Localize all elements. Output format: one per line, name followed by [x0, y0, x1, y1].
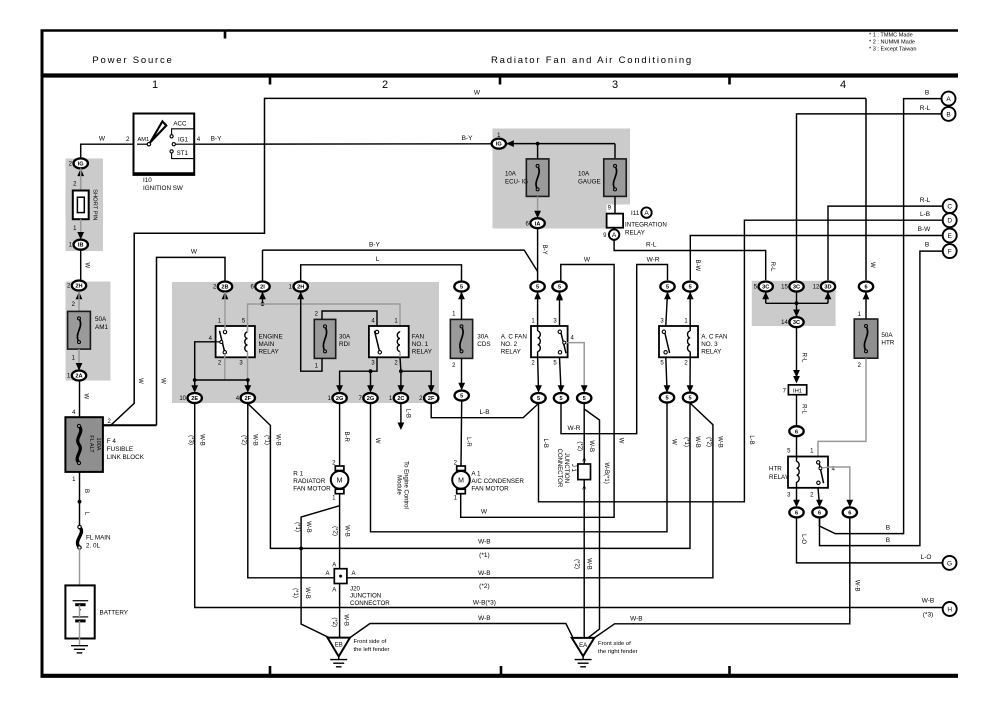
svg-text:L-B: L-B: [479, 409, 489, 416]
svg-text:5: 5: [536, 285, 539, 291]
svg-text:14: 14: [781, 320, 788, 326]
svg-text:3: 3: [612, 79, 618, 91]
battery: [65, 585, 94, 638]
wire B-Y ignition to IG fuse oval: [194, 143, 491, 145]
svg-text:W-B: W-B: [304, 587, 310, 599]
svg-text:* 2 : NUMMI Made: * 2 : NUMMI Made: [869, 40, 915, 46]
fan no1 relay switch: [375, 331, 380, 352]
wire W-B 5 oval to EA via J1: [583, 403, 585, 638]
svg-text:3C: 3C: [793, 285, 800, 291]
svg-text:L-B: L-B: [542, 439, 548, 448]
svg-text:10: 10: [179, 396, 186, 402]
fuse 30A RDI: [314, 319, 335, 358]
wire W-R net: [561, 265, 668, 434]
svg-text:* 1 : TMMC Made: * 1 : TMMC Made: [869, 33, 913, 39]
svg-text:B: B: [925, 90, 929, 97]
gray zone 3C/3D connector: [752, 281, 836, 326]
junction IH1: [788, 385, 806, 395]
wire radiator motor pin1 down: [339, 494, 341, 569]
svg-text:5: 5: [665, 396, 668, 402]
ground below battery: [71, 645, 88, 647]
svg-text:W-R: W-R: [568, 425, 581, 432]
svg-text:2G: 2G: [336, 396, 343, 402]
connector 2I: [255, 282, 269, 292]
svg-text:RELAY: RELAY: [501, 348, 522, 355]
svg-text:ST1: ST1: [177, 150, 189, 157]
wire 2I to bus to engine relay pin5 and fan relay pin1: [262, 292, 264, 304]
connector 6 L-O: [789, 507, 803, 517]
svg-text:L-B: L-B: [920, 211, 930, 218]
bottom border ticks: [269, 666, 272, 674]
svg-text:A: A: [352, 571, 356, 577]
wire W net fan2: [559, 280, 561, 282]
svg-text:ECU- IG: ECU- IG: [505, 179, 528, 186]
svg-text:6: 6: [848, 511, 851, 517]
wire AM1 fuse to 2A: [78, 349, 80, 369]
wire RDI pin1 to 2H: [301, 292, 322, 371]
connector 2F right: [424, 393, 438, 403]
connector 2G no7: [363, 393, 377, 403]
svg-text:4: 4: [840, 79, 846, 91]
wire B-Y IA to relays: [537, 228, 539, 281]
svg-text:W-B: W-B: [630, 615, 643, 622]
svg-text:BATTERY: BATTERY: [100, 610, 129, 617]
svg-text:FL MAIN: FL MAIN: [86, 535, 111, 542]
svg-text:W-B: W-B: [478, 615, 491, 622]
wire GAUGE fuse to integration relay: [614, 196, 616, 213]
svg-text:(*1): (*1): [479, 552, 489, 559]
radiator fan motor R1: [335, 466, 344, 471]
svg-text:W-B: W-B: [478, 539, 491, 546]
wire 2B to engine relay pin1: [224, 292, 226, 331]
HTR relay switch: [819, 461, 824, 483]
header column ticks: [269, 77, 272, 85]
svg-text:B: B: [925, 242, 929, 249]
svg-text:Front side of: Front side of: [598, 641, 631, 647]
svg-text:5: 5: [559, 396, 562, 402]
wire L-B circle D net: [539, 220, 943, 502]
gray zone ECU-IG/GAUGE fuses: [493, 129, 631, 229]
svg-text:2H: 2H: [297, 285, 304, 291]
svg-text:HTR: HTR: [881, 340, 894, 347]
svg-text:F: F: [948, 249, 952, 256]
connector IA: [530, 218, 544, 228]
svg-text:W-R: W-R: [647, 257, 660, 264]
svg-text:NO. 2: NO. 2: [501, 341, 518, 348]
svg-text:W: W: [670, 439, 676, 445]
ground EA front side of the right fender: [572, 638, 595, 656]
wire fan relay pin3 to 2G connectors: [340, 357, 377, 390]
svg-text:2: 2: [126, 136, 130, 143]
wire W-B1 5 oval diagonal to EA: [584, 409, 599, 638]
svg-text:W-B: W-B: [478, 570, 491, 577]
svg-text:L-B: L-B: [404, 409, 410, 418]
wire R-L integration relay to 3C: [614, 240, 766, 280]
connector 6 HTR fuse: [859, 282, 873, 292]
svg-text:RDI: RDI: [339, 341, 350, 348]
circle H: [943, 602, 957, 616]
svg-text:SHORT PIN: SHORT PIN: [92, 189, 98, 220]
connector 5 wr top: [660, 282, 674, 292]
svg-text:W-B(*1): W-B(*1): [603, 462, 609, 483]
wire W main distribution: [103, 424, 111, 426]
wire W bus fan3: [371, 403, 668, 532]
fuse FL MAIN 2.0L: [77, 527, 81, 548]
wire ac fan no2 pin2 pin5 to bottom ovals: [537, 357, 540, 390]
svg-text:15: 15: [781, 285, 788, 291]
svg-text:B-Y: B-Y: [211, 136, 223, 143]
svg-text:W-B: W-B: [343, 614, 349, 626]
svg-text:(*1): (*1): [292, 588, 298, 598]
svg-text:30A: 30A: [477, 334, 489, 341]
svg-text:W: W: [584, 257, 591, 264]
svg-text:6: 6: [818, 511, 821, 517]
ac fan no3 relay coil: [689, 326, 691, 331]
junction connector J20: [334, 569, 347, 584]
svg-text:B-W: B-W: [694, 259, 700, 271]
svg-text:L-O: L-O: [921, 554, 932, 561]
connector 2H center: [294, 282, 308, 292]
connector 2H left column: [72, 281, 86, 291]
wire W ignition feed: [81, 144, 134, 158]
wire W 2A to fusible link: [79, 381, 81, 418]
wire into 2H from AM1 fuse: [76, 292, 83, 300]
svg-text:W-B: W-B: [694, 436, 700, 448]
svg-text:B-Y: B-Y: [541, 245, 547, 255]
connector 2G no1: [332, 393, 346, 403]
svg-text:W: W: [474, 90, 481, 97]
wire W-B EB to EA bottom bus: [350, 624, 573, 638]
svg-text:5: 5: [537, 396, 540, 402]
svg-text:2F: 2F: [428, 396, 435, 402]
wire L-B 2F to 5 oval: [431, 404, 538, 418]
ac fan no2 relay switch: [560, 331, 566, 354]
circle B: [942, 107, 956, 121]
connector 2E: [188, 393, 202, 403]
svg-text:2C: 2C: [397, 396, 404, 402]
svg-text:A: A: [612, 232, 617, 239]
wire W IB to 2H: [80, 250, 82, 281]
svg-text:R-L: R-L: [920, 197, 931, 204]
svg-text:IG: IG: [78, 162, 84, 168]
svg-text:LINK BLOCK: LINK BLOCK: [107, 454, 145, 461]
fan no1 relay coil: [399, 331, 401, 332]
svg-text:2B: 2B: [221, 285, 228, 291]
connector 5 bw top: [683, 282, 697, 292]
connector 5 CDS top: [454, 282, 468, 292]
svg-text:W: W: [99, 136, 106, 143]
svg-text:5: 5: [583, 396, 586, 402]
svg-text:(*2): (*2): [705, 437, 711, 447]
svg-text:3C: 3C: [793, 320, 800, 326]
svg-text:W-B: W-B: [922, 598, 935, 605]
svg-text:2H: 2H: [75, 284, 82, 290]
svg-text:(*1): (*1): [683, 437, 689, 447]
svg-text:EA: EA: [579, 643, 587, 649]
wire W-B EA to HTR relay pin4: [594, 517, 850, 638]
svg-text:MAIN: MAIN: [259, 341, 275, 348]
svg-text:B: B: [886, 537, 890, 544]
wire HTR relay pin2 to 6 oval: [818, 488, 820, 506]
svg-text:GAUGE: GAUGE: [578, 179, 601, 186]
top border tick: [224, 30, 227, 39]
svg-text:J20: J20: [350, 586, 361, 593]
connector 2C: [394, 393, 408, 403]
junction connector J1: [578, 464, 591, 480]
svg-text:R-L: R-L: [801, 404, 807, 414]
svg-text:M: M: [337, 477, 343, 484]
svg-text:30A: 30A: [339, 334, 351, 341]
svg-text:A: A: [332, 588, 336, 594]
wire ECU-IG fuse to IA: [537, 196, 539, 217]
engine main relay coil: [247, 326, 249, 332]
svg-text:W: W: [618, 438, 624, 444]
svg-text:W: W: [84, 262, 90, 268]
fusible link block F4 100A FL ALT: [65, 417, 103, 472]
fuse 10A ECU-IG: [526, 159, 549, 197]
svg-text:CDS: CDS: [477, 341, 490, 348]
svg-text:F 4: F 4: [107, 438, 117, 445]
ac fan no2 relay box: [531, 326, 568, 357]
svg-text:(*1): (*1): [294, 522, 300, 532]
svg-text:10A: 10A: [578, 171, 590, 178]
wire FL MAIN to battery: [79, 548, 81, 601]
svg-text:ENGINE: ENGINE: [259, 334, 283, 341]
wire short pin lower with arrow into IB: [80, 219, 82, 238]
svg-text:B: B: [946, 111, 950, 118]
circle C: [943, 199, 957, 213]
svg-text:FAN: FAN: [412, 334, 425, 341]
svg-text:R-L: R-L: [646, 242, 657, 249]
svg-text:6: 6: [795, 511, 798, 517]
svg-text:(*2): (*2): [331, 617, 337, 627]
svg-text:B-Y: B-Y: [462, 135, 474, 142]
svg-text:6: 6: [864, 285, 867, 291]
connector 2F left: [241, 393, 255, 403]
wire CDS to bottom oval: [461, 358, 463, 388]
svg-text:B: B: [83, 489, 89, 493]
wire fan relay pin2 to 2C 2F: [399, 357, 402, 390]
connector 3C 15: [789, 282, 803, 292]
svg-text:A: A: [582, 458, 586, 464]
svg-text:10A: 10A: [505, 171, 517, 178]
ground EB front side of the left fender: [328, 638, 351, 657]
svg-text:5: 5: [558, 285, 561, 291]
svg-text:W: W: [137, 378, 143, 384]
wire L-R CDS to ac condenser motor: [460, 401, 463, 467]
svg-text:RADIATOR: RADIATOR: [293, 478, 325, 485]
svg-text:W-B: W-B: [588, 440, 594, 452]
svg-text:A: A: [946, 96, 951, 103]
svg-text:(*2): (*2): [332, 526, 338, 536]
connector 5 w: [552, 282, 566, 292]
svg-text:50A: 50A: [95, 316, 107, 323]
svg-text:ACC: ACC: [173, 121, 187, 128]
svg-text:3C: 3C: [762, 285, 769, 291]
wire R-L circle C to 3D: [828, 206, 943, 280]
svg-text:R-L: R-L: [801, 353, 807, 363]
svg-text:AM1: AM1: [95, 324, 108, 331]
svg-text:I11: I11: [631, 210, 640, 217]
svg-text:NO. 1: NO. 1: [412, 341, 429, 348]
wire B-R 2G to radiator fan motor: [339, 404, 341, 467]
svg-text:L: L: [376, 256, 380, 263]
svg-text:R-L: R-L: [920, 105, 931, 112]
wire W top to HTR fuse oval: [865, 98, 867, 280]
svg-text:A: A: [644, 210, 649, 217]
svg-text:A. C FAN: A. C FAN: [501, 334, 528, 341]
wire W-B1 bus: [248, 403, 690, 548]
svg-text:5: 5: [688, 396, 691, 402]
connector 5 lb bottom: [531, 393, 545, 403]
svg-text:L-B: L-B: [748, 435, 754, 444]
svg-text:FAN MOTOR: FAN MOTOR: [293, 486, 331, 493]
svg-text:W-B: W-B: [305, 521, 311, 533]
connector 5 wb bottom: [577, 393, 591, 403]
connector 6 above HTR relay: [789, 426, 803, 436]
svg-text:(*3): (*3): [188, 435, 194, 445]
svg-text:2G: 2G: [367, 396, 374, 402]
wire IG oval to fuses: [506, 140, 514, 147]
svg-text:L-R: L-R: [465, 437, 471, 447]
wire R-L 14 3C to IH1: [796, 327, 798, 373]
svg-text:(*3): (*3): [923, 612, 933, 619]
wire W-B2 bus: [347, 403, 713, 578]
svg-text:A: A: [582, 486, 586, 492]
svg-text:RELAY: RELAY: [769, 474, 789, 481]
svg-text:1: 1: [152, 79, 158, 91]
svg-text:RELAY: RELAY: [259, 348, 280, 355]
connector IB: [74, 240, 88, 250]
svg-text:Radiator Fan and Air Condition: Radiator Fan and Air Conditioning: [491, 55, 693, 66]
wire B-Y down to 2I: [262, 250, 264, 281]
ac condenser fan motor A1: [457, 466, 466, 471]
gray zone relay block: [172, 282, 439, 403]
svg-text:W-B: W-B: [252, 434, 258, 446]
gray zone short pin: [66, 159, 104, 252]
svg-text:NO. 3: NO. 3: [701, 341, 718, 348]
svg-text:W: W: [374, 438, 380, 444]
ac fan no3 relay box: [659, 326, 698, 357]
svg-text:W: W: [191, 249, 198, 256]
svg-text:R-L: R-L: [769, 262, 775, 272]
circle F: [943, 244, 957, 258]
svg-text:(*2): (*2): [241, 435, 247, 445]
short pin component: [73, 191, 89, 220]
connector 2B: [218, 282, 232, 292]
wire L 2H to CDS fuse: [297, 292, 304, 300]
svg-text:IA: IA: [535, 221, 541, 227]
connector 5 b-y: [530, 282, 544, 292]
wire B-W circle E to relay: [690, 236, 942, 281]
svg-text:M: M: [458, 477, 464, 484]
svg-text:IGNITION SW: IGNITION SW: [143, 185, 183, 192]
wire HTR relay pin3 to 6 oval: [796, 488, 798, 506]
wire CDS to top oval: [461, 292, 463, 319]
engine main relay box: [216, 326, 255, 357]
svg-text:5: 5: [460, 285, 463, 291]
wire R-L circle B to 3C: [797, 114, 942, 280]
wire ac fan no3 pins to top ovals: [666, 292, 668, 326]
HTR relay coil: [796, 457, 798, 462]
svg-text:A/C CONDENSER: A/C CONDENSER: [471, 478, 524, 485]
svg-text:FUSIBLE: FUSIBLE: [107, 446, 133, 453]
svg-text:2I: 2I: [260, 285, 265, 291]
wire HTR relay pin4 gray to 6 oval: [828, 467, 850, 506]
svg-text:* 3 : Except Taiwan: * 3 : Except Taiwan: [869, 47, 916, 53]
wire L-B 2C to engine control module: [400, 404, 402, 427]
svg-text:4: 4: [197, 136, 201, 143]
connector 2A: [72, 371, 86, 381]
connector 6 W-B: [843, 507, 857, 517]
wire B to circle A: [820, 99, 942, 534]
svg-text:B: B: [886, 525, 890, 532]
svg-text:W: W: [481, 508, 488, 515]
wire 6 oval to HTR relay pin5: [796, 436, 798, 456]
svg-text:W-B: W-B: [854, 580, 860, 592]
fuse 30A CDS: [450, 319, 472, 358]
svg-text:6: 6: [795, 429, 798, 435]
svg-text:IG1: IG1: [178, 137, 189, 144]
svg-text:W-B: W-B: [199, 434, 205, 446]
svg-text:C: C: [947, 204, 952, 211]
svg-text:H: H: [947, 606, 952, 613]
ignition switch ST1 contact: [170, 150, 173, 153]
circle D: [943, 213, 957, 227]
svg-text:CONNECTOR: CONNECTOR: [350, 600, 390, 607]
svg-text:JUNCTION: JUNCTION: [350, 593, 381, 600]
wire L-O to circle G: [797, 517, 943, 563]
svg-text:Power Source: Power Source: [92, 55, 173, 66]
svg-text:HTR: HTR: [769, 466, 782, 473]
HTR relay box: [788, 457, 828, 488]
svg-text:EB: EB: [335, 643, 343, 649]
svg-text:I10: I10: [143, 177, 152, 184]
svg-text:12: 12: [813, 285, 820, 291]
fuse 10A GAUGE: [604, 159, 627, 197]
wire ac fan no3 pins to bottom ovals: [666, 357, 667, 390]
svg-text:W: W: [869, 262, 875, 268]
svg-text:50A: 50A: [881, 332, 893, 339]
svg-text:W-B: W-B: [716, 436, 722, 448]
wire W-B3 to circle H: [195, 404, 943, 608]
svg-text:Front side of: Front side of: [354, 639, 387, 645]
connector 6 B: [812, 507, 826, 517]
wire HTR fuse to HTR relay pin1: [818, 358, 866, 456]
svg-text:(*2): (*2): [577, 441, 583, 451]
wire W to 2B: [157, 257, 226, 425]
connector 5 CDS bottom: [455, 391, 469, 401]
connector 3C 5: [759, 282, 773, 292]
svg-text:R 1: R 1: [293, 471, 303, 478]
connector 3C 14: [789, 317, 803, 327]
connector 3D 12: [821, 282, 835, 292]
svg-text:W-B: W-B: [274, 434, 280, 446]
svg-text:E: E: [948, 233, 953, 240]
svg-text:IG: IG: [496, 142, 502, 148]
connector IG middle: [492, 139, 506, 149]
svg-text:(*2): (*2): [573, 559, 579, 569]
gray zone AM1 fuse: [66, 282, 111, 381]
svg-text:(*2): (*2): [479, 583, 489, 590]
svg-text:A: A: [332, 562, 336, 568]
fan no1 relay box: [369, 326, 409, 357]
connector IG top of short pin: [77, 169, 84, 177]
svg-text:AM1: AM1: [138, 137, 150, 143]
wire engine relay bottom to 2E 2F: [195, 342, 216, 390]
svg-text:B-R: B-R: [343, 432, 349, 443]
svg-text:5: 5: [666, 285, 669, 291]
